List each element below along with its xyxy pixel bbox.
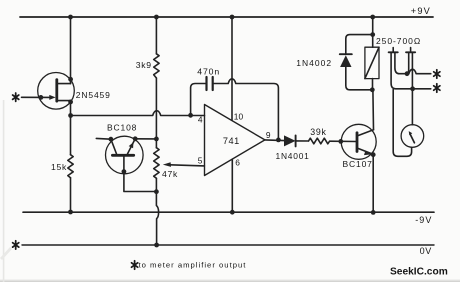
resistor 15k (51, 155, 73, 178)
svg-text:470n: 470n (197, 66, 220, 76)
node: source junction dot (68, 113, 73, 118)
svg-text:4: 4 (198, 115, 203, 125)
node: output asterisk 2 (434, 84, 440, 92)
svg-text:741: 741 (223, 136, 240, 146)
node: relay top tap dot (370, 32, 375, 37)
wire: 15k to -9V rail (70, 178, 72, 212)
wire: 39k to BC107 base (330, 140, 356, 142)
footnote: to meter amplifier output (132, 260, 247, 269)
svg-text:250-700Ω: 250-700Ω (376, 36, 421, 46)
+9V rail (20, 6, 433, 17)
wire: BC108 emitter to 47k top (135, 138, 156, 140)
wire: diode to 39k (296, 140, 309, 142)
node: dot where BC108 emitter wire joins (154, 137, 159, 142)
resistor 39k (309, 127, 330, 144)
potentiometer 47k (154, 148, 178, 180)
wire: BC108 collector stub (96, 137, 111, 140)
svg-text:SeekIC.com: SeekIC.com (390, 267, 448, 278)
node: output/feedback junction dot (276, 138, 281, 143)
relay contact 2 (406, 48, 415, 125)
wire: pin 5 to 47k wiper arrow (163, 162, 205, 167)
wire: BC107 emitter to -9V (372, 155, 374, 213)
svg-text:1N4001: 1N4001 (276, 151, 310, 161)
svg-text:5: 5 (198, 155, 203, 165)
svg-text:to meter amplifier output: to meter amplifier output (139, 260, 247, 269)
wire: JFET drain to +9V (70, 17, 72, 84)
wire: source node to op-amp pin 4 (hops over 3k9/47k line) (71, 111, 205, 116)
node: feedback tap dot (188, 113, 193, 118)
node: gate input asterisk (13, 93, 19, 101)
diode 1N4001 (276, 135, 310, 161)
relay coil 250-700ohm (365, 17, 421, 90)
wire: JFET source down to 15k (70, 101, 72, 155)
svg-text:9: 9 (266, 130, 271, 140)
wire: op-amp output (265, 139, 284, 142)
node: rail junction dots on -9V (68, 210, 376, 215)
node: BC107 base dot (338, 139, 343, 144)
svg-text:39k: 39k (310, 127, 326, 137)
0V rail (13, 241, 434, 256)
wire: 47k bottom to 0V (hops over -9V rail) (156, 178, 158, 245)
meter M1 (393, 90, 424, 157)
scan artifacts: bottom edge shadow (0, 100, 460, 282)
wire: pin 10 to +9V (231, 17, 233, 120)
node: relay bottom tap dot (370, 87, 375, 92)
node: 47k bottom / BC108 base junction (154, 189, 159, 194)
svg-text:47k: 47k (162, 169, 178, 179)
transistor BC108 (106, 122, 157, 191)
svg-text:15k: 15k (51, 162, 67, 172)
node: output asterisk 1 (434, 70, 440, 78)
relay contact 1 (389, 48, 431, 89)
node: dot on output 1 (405, 71, 410, 76)
svg-text:1N4002: 1N4002 (296, 58, 332, 68)
node: rail junction dots on +9V (68, 15, 375, 20)
resistor 3k9 (136, 17, 159, 78)
svg-text:BC107: BC107 (343, 159, 373, 169)
svg-text:BC108: BC108 (107, 122, 137, 132)
transistor 2N5459 (JFET) (22, 73, 111, 110)
svg-text:10: 10 (234, 112, 244, 122)
svg-text:-9V: -9V (415, 215, 432, 225)
wire: 3k9 to 47k (155, 78, 157, 148)
node: dot on output 2 (410, 86, 415, 91)
op-amp 741 (198, 105, 271, 176)
diode 1N4002 (296, 35, 372, 90)
svg-text:+9V: +9V (411, 6, 431, 16)
-9V rail (23, 212, 434, 225)
svg-text:2N5459: 2N5459 (76, 90, 111, 100)
svg-text:6: 6 (235, 157, 240, 167)
transistor BC107 (341, 124, 376, 169)
svg-text:0V: 0V (420, 246, 432, 256)
svg-text:3k9: 3k9 (136, 60, 152, 70)
capacitor 470n and feedback wire (191, 66, 279, 139)
node: dot on 0V rail (154, 243, 159, 248)
wire: contact output 1 (hops over leg) (407, 69, 431, 73)
wire: BC107 collector up to relay (372, 90, 375, 130)
wire: pin 6 to -9V (231, 159, 233, 212)
